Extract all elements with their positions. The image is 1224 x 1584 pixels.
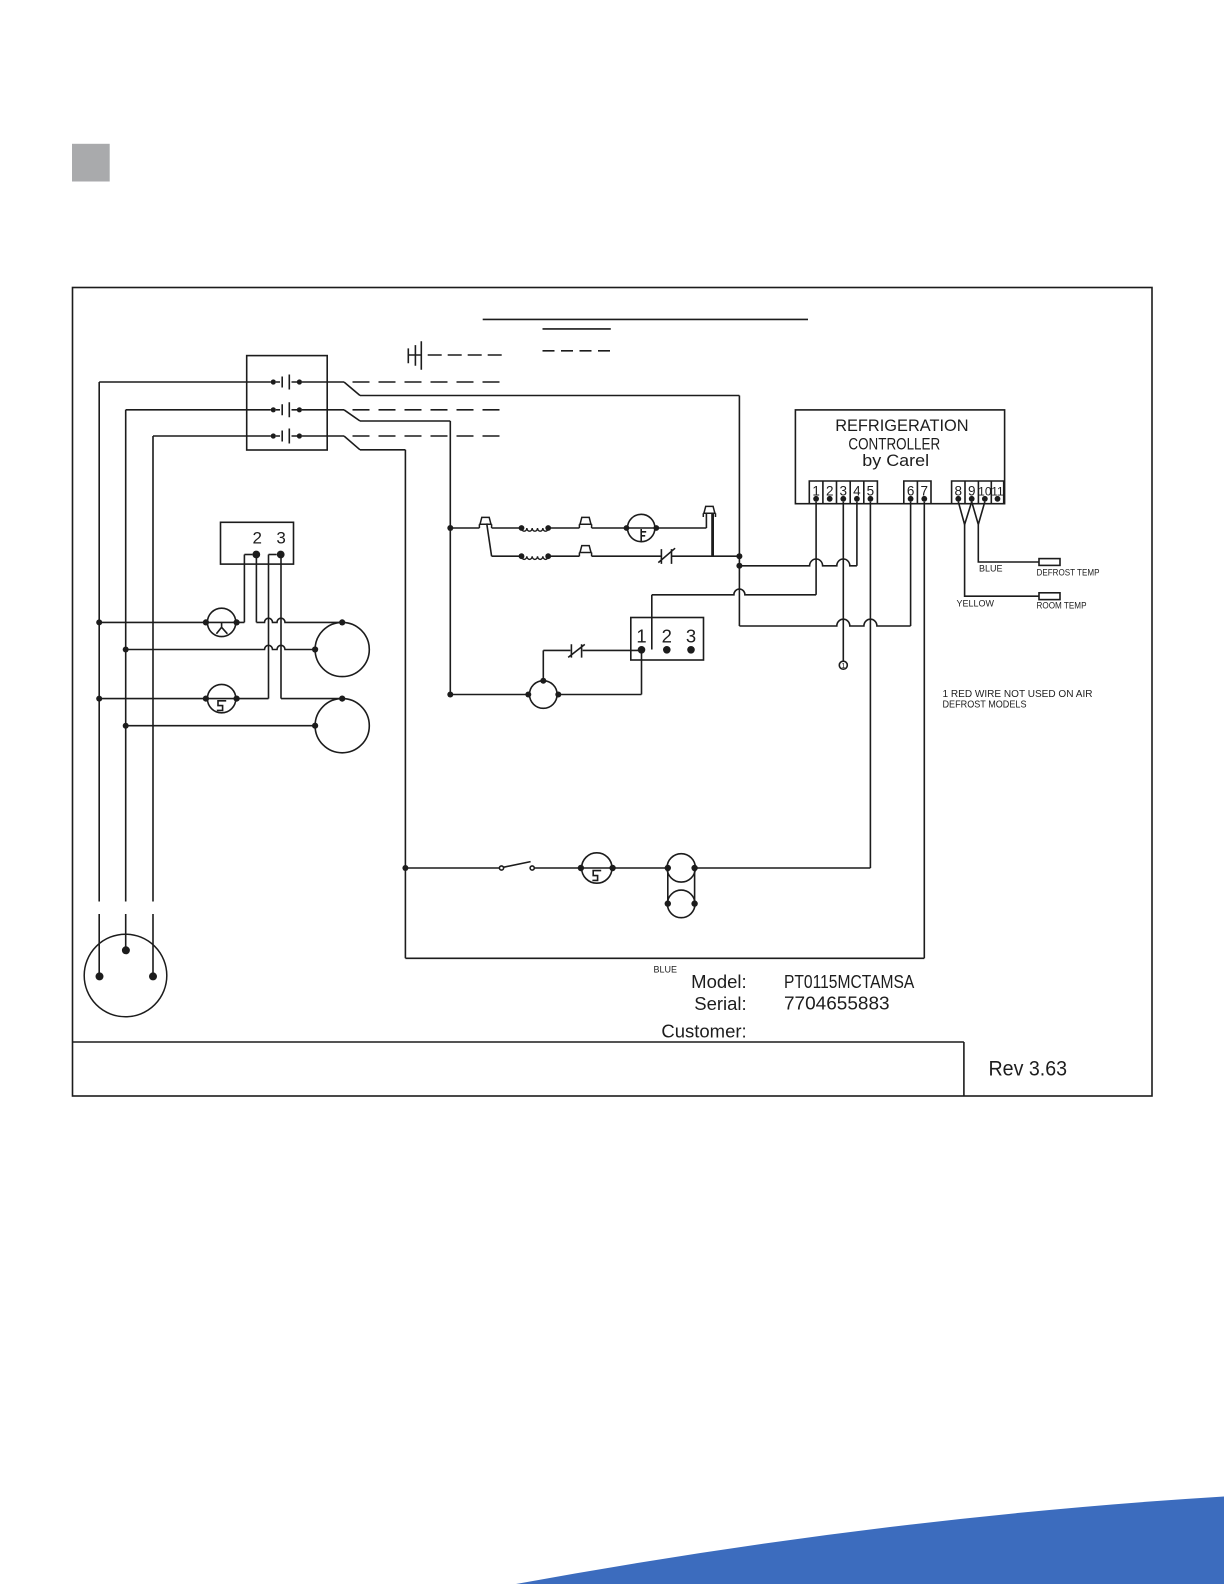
compressor overload P3: [582, 853, 612, 883]
svg-text:REFRIGERATION: REFRIGERATION: [835, 417, 968, 435]
wire from L3 run down: [404, 450, 406, 959]
wire from L1 run down to node: [738, 396, 740, 627]
wire L1 horizontal run: [360, 395, 739, 397]
blue footer swoosh: [516, 1497, 1224, 1584]
svg-text:BLUE: BLUE: [654, 965, 678, 975]
dashed field wiring row 3: [353, 435, 504, 437]
node line4 junction: [123, 723, 129, 729]
svg-text:6: 6: [907, 483, 915, 498]
wire hop run to condenser fan top: [256, 618, 342, 622]
fan motor M2: [315, 699, 369, 753]
node heater to column: [736, 553, 742, 559]
wire node column to terminal 4: [739, 559, 857, 566]
node line2 junction: [123, 647, 129, 653]
svg-text:10: 10: [978, 484, 992, 498]
compressor branch node: [402, 865, 408, 871]
svg-text:3: 3: [686, 626, 696, 647]
relay capacitor side links: [668, 868, 695, 904]
svg-text:3: 3: [276, 528, 285, 547]
start capacitor C1: [667, 890, 695, 918]
svg-text:Rev 3.63: Rev 3.63: [989, 1058, 1068, 1081]
svg-text:4: 4: [853, 483, 861, 498]
controller terminal block 1-5: [809, 481, 877, 504]
wire timer riser: [542, 650, 544, 680]
protector P1 symbol: [216, 623, 227, 634]
wire terminal 6 drop: [910, 502, 912, 626]
wire compressor fan line 3: [99, 698, 268, 700]
coil H2 dots: [519, 553, 525, 559]
svg-text:DEFROST MODELS: DEFROST MODELS: [943, 700, 1027, 711]
sensor wire V crossing 8-9: [958, 502, 971, 525]
ground comb symbol: [408, 341, 422, 370]
gray header square: [72, 144, 110, 182]
svg-text:5: 5: [867, 483, 875, 498]
wire from terminal 2 down: [255, 555, 257, 623]
partial legend dashed line: [543, 350, 611, 352]
sensor wire V crossing 9-10: [972, 502, 985, 525]
wire to motor M2 top: [281, 698, 342, 700]
service switch S3 blade: [504, 862, 531, 868]
branch diagonal: [487, 523, 492, 556]
timer feed node: [447, 692, 453, 698]
overload protector P1: [207, 608, 235, 636]
thermal cutout TC3: [703, 506, 716, 517]
svg-text:Model:: Model:: [691, 971, 747, 992]
svg-text:2: 2: [826, 483, 834, 498]
wire L3 diagonal drop: [344, 436, 360, 450]
defrost termination switch S1: [658, 548, 675, 564]
controller terminal block 8-11: [952, 481, 1004, 504]
yellow sensor wire: [965, 525, 1039, 597]
wire from terminal 3 stub down: [268, 555, 270, 699]
relay R1 terminals: [665, 865, 671, 871]
svg-text:8: 8: [955, 483, 963, 498]
wire number bubble 1: [839, 661, 847, 669]
F1 terminals: [624, 525, 630, 531]
compressor feed wire: [405, 867, 581, 869]
wire overload to relay: [613, 867, 668, 869]
node line3 junction: [96, 696, 102, 702]
heater coil H1: [522, 528, 549, 531]
supply wire C vertical: [152, 436, 154, 976]
thermal cutout TC4: [579, 546, 592, 557]
overload protector P2: [207, 684, 235, 712]
wire terminal 7 drop: [923, 502, 925, 959]
ground dashed lead: [428, 354, 503, 356]
wire timer feed: [450, 694, 641, 696]
wire timer to terminal box: [641, 650, 643, 694]
wire L3 left: [153, 435, 271, 437]
defrost heater bottom branch wire: [492, 555, 740, 557]
protector P2 symbol: [217, 701, 226, 711]
wire evap fan line 1: [99, 621, 244, 623]
heater coil H2: [522, 556, 549, 559]
supply wire B vertical: [125, 410, 127, 951]
wire L2 diagonal drop: [344, 410, 360, 421]
partial legend line long: [483, 318, 808, 320]
supply wire A vertical: [98, 382, 100, 976]
wire terminal 1 drop: [815, 502, 817, 595]
thermal cutout TC1: [479, 517, 492, 528]
svg-text:DEFROST TEMP: DEFROST TEMP: [1037, 567, 1100, 577]
contactor contact dots: [271, 379, 276, 384]
svg-text:7: 7: [921, 483, 929, 498]
defrost limit switch S2: [568, 644, 585, 657]
svg-text:1: 1: [812, 483, 820, 498]
wire limit switch left: [543, 649, 570, 651]
svg-text:1: 1: [636, 626, 646, 647]
heater branch node: [447, 525, 453, 531]
controller terminal dots: [813, 496, 819, 502]
drawing border frame: [73, 288, 1153, 1097]
F1 symbol: [641, 529, 646, 541]
svg-text:3: 3: [840, 483, 848, 498]
contactor contact L3: [282, 429, 289, 444]
svg-text:7704655883: 7704655883: [784, 994, 890, 1014]
wire terminal 3 drop: [842, 502, 844, 662]
svg-text:ROOM TEMP: ROOM TEMP: [1037, 600, 1087, 610]
wire terminal 1 horizontal: [652, 589, 816, 595]
protector P1 terminals: [203, 619, 209, 625]
wire L1 through contact: [276, 381, 344, 383]
wire evap fan line 2: [126, 645, 315, 649]
plug pin dots: [122, 946, 130, 954]
wire terminal 4 drop: [856, 502, 858, 566]
wire limit switch right: [583, 649, 642, 651]
dashed field wiring row 1: [353, 381, 504, 383]
wire line 4 to motor M2 left: [126, 725, 315, 727]
wire from terminal 3 down: [280, 555, 282, 699]
wire relay to terminal 5 riser: [695, 867, 871, 869]
terminal box 1-2-3 dots: [638, 646, 646, 654]
svg-text:11: 11: [991, 484, 1004, 498]
partial legend line short: [543, 328, 611, 330]
wire L3 horizontal run: [360, 449, 405, 451]
wire riser to cap: [705, 513, 707, 528]
defrost heater top branch wire: [450, 527, 706, 529]
contactor K1 box: [247, 356, 328, 450]
coil H1 dots: [519, 525, 525, 531]
wire from terminal 2 stub down: [243, 555, 245, 623]
overload P3 symbol: [592, 871, 601, 881]
motor M2 terminals: [339, 696, 345, 702]
wire terminal 5 drop: [869, 502, 871, 868]
defrost fan delay F1: [628, 514, 655, 541]
svg-text:BLUE: BLUE: [979, 564, 1003, 574]
terminal 2 stub: [244, 554, 252, 556]
wire L1 diagonal drop: [344, 382, 360, 396]
wire L3 through contact: [276, 435, 344, 437]
terminal box 1-2-3: [631, 618, 704, 661]
wire node column to terminal 6: [739, 619, 910, 626]
service switch S3 contacts: [499, 866, 503, 870]
blue sensor wire: [978, 525, 1039, 563]
bottom return wire: [405, 957, 924, 959]
refrigeration controller box: [795, 410, 1004, 504]
thermal cutout TC2: [579, 517, 592, 528]
wire L2 through contact: [276, 409, 344, 411]
svg-text:YELLOW: YELLOW: [957, 598, 995, 608]
terminal box 2-3: [221, 522, 294, 564]
wire from L2 run down: [449, 421, 451, 695]
title block divider line: [73, 1042, 964, 1096]
condenser fan motor M1: [315, 622, 369, 676]
power plug circle: [84, 934, 167, 1017]
terminal 2 dot: [252, 551, 260, 559]
start relay R1: [667, 854, 695, 882]
svg-text:2: 2: [252, 528, 261, 547]
svg-text:2: 2: [662, 626, 672, 647]
room temp sensor bulb: [1039, 593, 1060, 600]
wire through overload: [581, 867, 613, 869]
wire L2 left: [126, 409, 271, 411]
terminal 3 stub: [269, 554, 277, 556]
defrost temp sensor bulb: [1039, 559, 1060, 566]
svg-text:by Carel: by Carel: [862, 452, 929, 470]
svg-text:1 RED WIRE NOT USED ON AIR: 1 RED WIRE NOT USED ON AIR: [943, 689, 1093, 700]
node line1 junction: [96, 619, 102, 625]
defrost timer motor M3: [530, 681, 558, 709]
motor M1 terminals: [339, 619, 345, 625]
wire terminal 1 riser: [651, 595, 653, 650]
svg-text:Customer:: Customer:: [661, 1020, 746, 1041]
timer M3 terminals: [540, 678, 546, 684]
capacitor C1 terminals: [665, 900, 671, 906]
wire L2 horizontal run: [360, 420, 450, 422]
controller terminal block 6-7: [904, 481, 931, 504]
svg-text:9: 9: [968, 483, 976, 498]
overload P3 terminals: [578, 865, 584, 871]
node terminal4 branch: [736, 563, 742, 569]
contactor contact L2: [282, 402, 289, 417]
svg-text:Serial:: Serial:: [694, 993, 746, 1014]
terminal 3 dot: [277, 551, 285, 559]
wire L1 left: [99, 381, 271, 383]
heater element thick bar: [711, 513, 714, 556]
svg-text:CONTROLLER: CONTROLLER: [848, 436, 940, 454]
svg-text:1: 1: [841, 661, 845, 670]
svg-text:PT0115MCTAMSA: PT0115MCTAMSA: [784, 972, 914, 992]
protector P2 terminals: [203, 696, 209, 702]
dashed field wiring row 2: [353, 409, 504, 411]
contactor contact L1: [282, 375, 289, 390]
